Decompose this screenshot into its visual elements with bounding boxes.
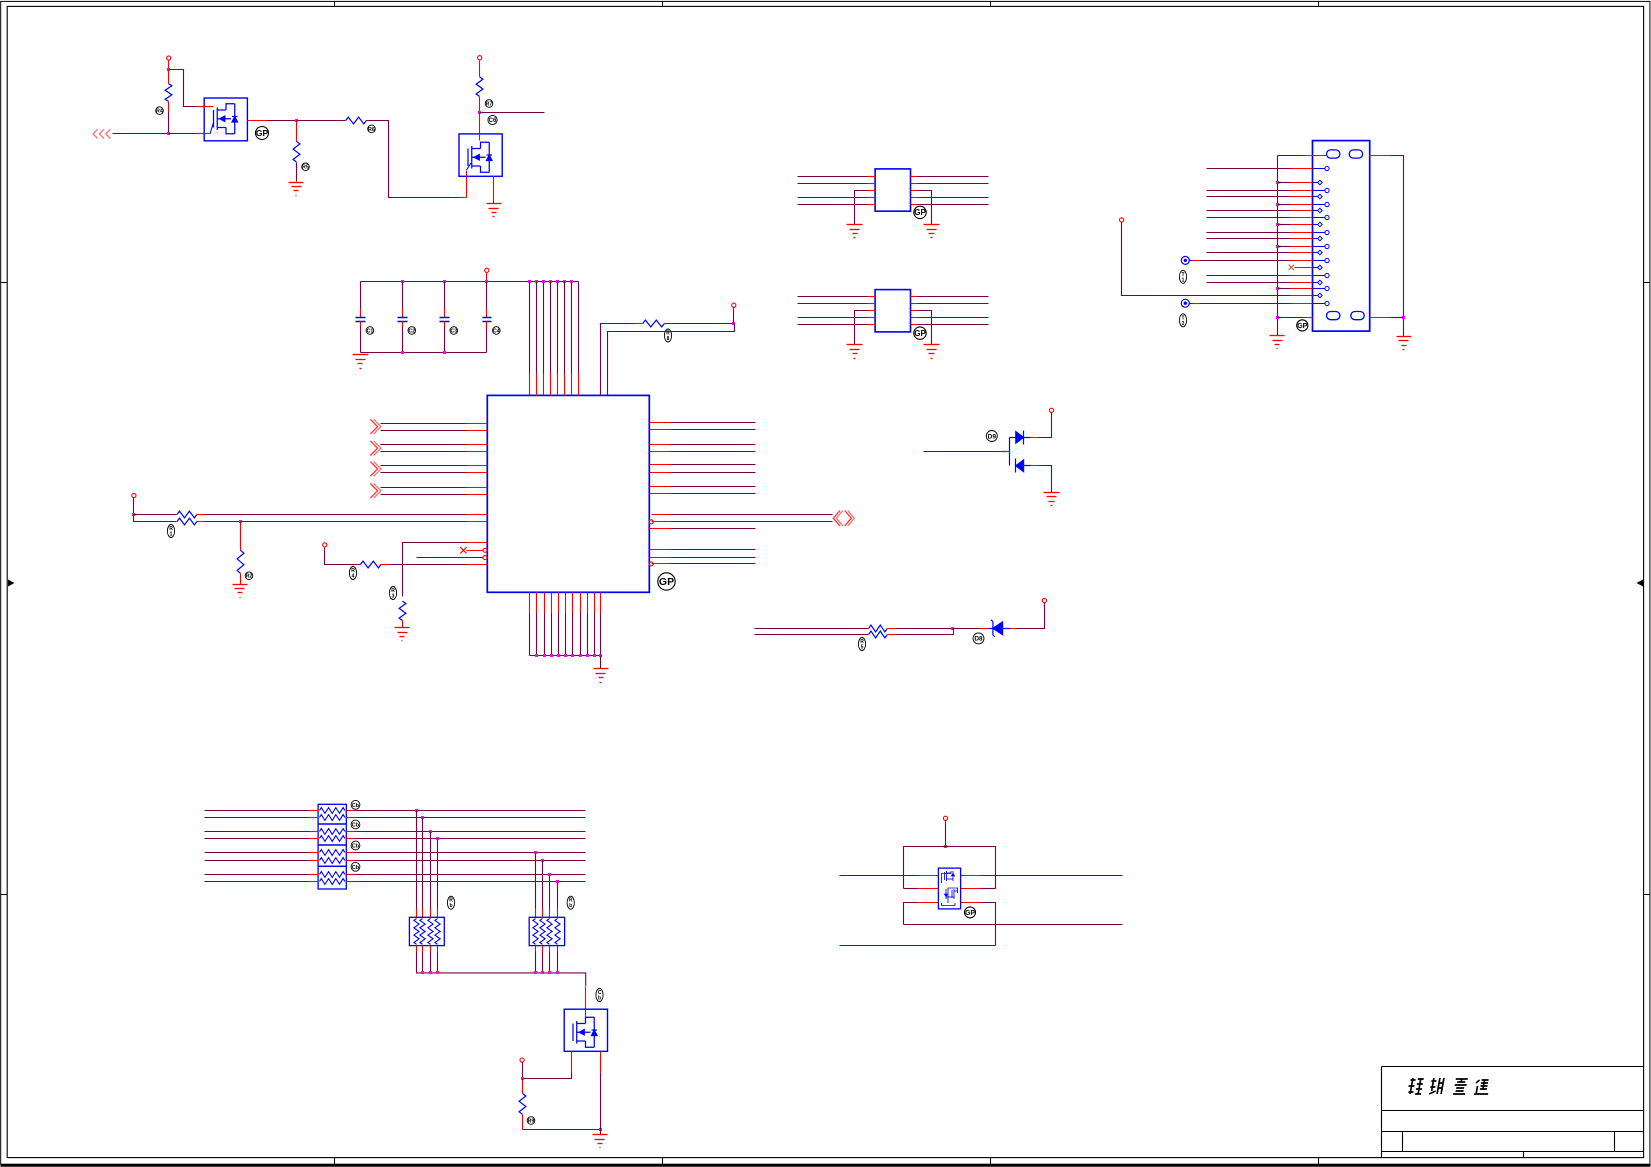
svg-text:5: 5 xyxy=(861,645,864,651)
resistor element RP3a xyxy=(320,850,345,856)
wire xyxy=(665,323,734,325)
signal wire xyxy=(1207,196,1291,198)
wire xyxy=(557,882,559,909)
inverted pin bubble xyxy=(649,562,653,566)
pin wire xyxy=(918,875,939,877)
node junction xyxy=(1276,223,1279,226)
resistor pack RP6 body xyxy=(529,917,564,945)
power terminal P1 xyxy=(167,56,171,60)
resistor R2 xyxy=(293,141,300,162)
wire xyxy=(904,888,918,890)
wire xyxy=(168,61,170,70)
pin wire xyxy=(422,909,424,918)
value label R5 xyxy=(664,329,671,342)
ground xyxy=(1397,337,1412,350)
wire xyxy=(798,183,868,185)
pin wire xyxy=(650,444,671,446)
wire xyxy=(798,197,868,199)
off-page connector chevrons xyxy=(370,419,381,434)
wire stub xyxy=(1190,260,1193,262)
pin wire xyxy=(347,860,355,862)
signal wire xyxy=(355,838,586,840)
pin wire xyxy=(248,120,268,122)
wire xyxy=(381,423,467,425)
wire xyxy=(133,498,135,516)
wire xyxy=(268,120,297,122)
ground xyxy=(1270,336,1285,349)
resistor element RP1a xyxy=(320,808,345,814)
pin wire xyxy=(868,176,876,178)
node junction xyxy=(541,859,544,862)
connector CN1 body xyxy=(1313,141,1370,332)
svg-text:1: 1 xyxy=(170,532,173,538)
pin wire xyxy=(572,593,574,614)
pin wire xyxy=(911,324,918,326)
signal wire xyxy=(205,852,310,854)
pin wire xyxy=(310,831,319,833)
node junction xyxy=(429,971,432,974)
node junction xyxy=(548,971,551,974)
resistor R4 xyxy=(476,77,483,97)
wire xyxy=(671,514,833,516)
value label C2 xyxy=(408,327,416,335)
wire xyxy=(523,1073,572,1079)
pin wire xyxy=(1291,217,1313,219)
resistor R13 xyxy=(519,1093,526,1114)
wire xyxy=(1278,182,1291,184)
ground xyxy=(924,345,940,359)
resistor element RP5 xyxy=(414,919,419,945)
wire xyxy=(1278,155,1305,157)
title block company logotype (CJK calligraphy strokes) xyxy=(1407,1078,1491,1094)
node junction xyxy=(1276,245,1279,248)
wire xyxy=(1039,413,1052,438)
pin wire xyxy=(1370,155,1390,157)
wire xyxy=(1201,303,1291,305)
node junction xyxy=(485,280,488,283)
wire stub xyxy=(1190,303,1193,305)
svg-text:D8: D8 xyxy=(974,636,983,643)
pin wire xyxy=(1291,204,1313,206)
wire xyxy=(1122,223,1291,296)
pin wire xyxy=(911,310,918,312)
pin wire xyxy=(557,946,559,952)
pin wire xyxy=(467,564,488,566)
svg-text:8: 8 xyxy=(667,336,670,342)
pin wire xyxy=(467,514,488,516)
pin wire xyxy=(422,946,424,952)
svg-text:Cb: Cb xyxy=(352,844,360,850)
wire xyxy=(535,952,537,973)
label RP3 xyxy=(351,841,360,850)
node junction xyxy=(1276,316,1279,319)
wire xyxy=(403,543,467,597)
wire xyxy=(798,296,868,298)
ground xyxy=(593,1135,608,1148)
label GP for U1 xyxy=(658,573,675,590)
wire xyxy=(671,444,756,446)
transistor Q2 symbol xyxy=(467,134,493,177)
off-page connector chevrons xyxy=(370,441,381,456)
value label R4 xyxy=(485,100,493,108)
wire xyxy=(918,317,989,319)
wire xyxy=(1278,288,1291,290)
transistor Q4 body xyxy=(938,868,960,909)
ground bus wire xyxy=(416,973,586,986)
power terminal P8 xyxy=(1049,408,1053,412)
svg-text:C4: C4 xyxy=(493,328,500,334)
resistor R3 xyxy=(346,117,367,124)
supply wire into U1 xyxy=(564,282,566,374)
pin wire xyxy=(1295,267,1313,269)
pin wire xyxy=(347,810,355,812)
wire xyxy=(600,656,602,669)
svg-text:Cb: Cb xyxy=(352,803,360,809)
wire xyxy=(549,875,551,909)
wire xyxy=(486,282,488,309)
wire xyxy=(493,202,495,204)
node junction xyxy=(944,845,947,848)
wire xyxy=(798,303,868,305)
power terminal P9 xyxy=(1042,598,1046,602)
svg-text:4: 4 xyxy=(352,574,355,580)
label RP1 xyxy=(351,800,360,809)
wire xyxy=(585,987,587,1010)
node junction xyxy=(556,880,559,883)
svg-text:2: 2 xyxy=(1182,321,1185,327)
svg-text:C3: C3 xyxy=(450,328,457,334)
svg-text:GP: GP xyxy=(914,329,926,338)
value label R6 R7 xyxy=(167,525,174,538)
wire xyxy=(918,191,932,225)
wire xyxy=(113,133,169,135)
IC U2 body xyxy=(875,169,910,211)
pin wire xyxy=(1291,210,1313,212)
pin wire xyxy=(549,946,551,952)
node junction xyxy=(534,971,537,974)
pin wire xyxy=(467,487,488,489)
transistor Q3 body xyxy=(564,1009,607,1051)
resistor pack RP1-RP4 bodies xyxy=(318,804,346,889)
signal wire xyxy=(1207,252,1291,254)
wire xyxy=(798,324,868,326)
pin wire xyxy=(868,296,876,298)
ground xyxy=(395,628,410,641)
pin wire xyxy=(650,464,671,466)
wire xyxy=(444,327,446,353)
pin wire xyxy=(542,946,544,952)
signal wire xyxy=(205,817,310,819)
signal wire xyxy=(840,945,996,947)
pin wire xyxy=(347,838,355,840)
wire xyxy=(198,133,205,135)
node junction xyxy=(534,851,537,854)
pin wire xyxy=(467,423,488,425)
ground bus wire xyxy=(361,352,487,354)
pin wire xyxy=(549,909,551,918)
wire xyxy=(486,322,488,327)
wire xyxy=(918,183,989,185)
node junction xyxy=(599,654,602,657)
wire xyxy=(1278,224,1291,226)
wire xyxy=(360,322,362,327)
wire xyxy=(580,614,582,656)
wire xyxy=(550,374,552,396)
power bus wire xyxy=(361,281,579,283)
label GP for Q1 xyxy=(256,127,269,140)
wire xyxy=(402,322,404,327)
wire xyxy=(918,197,989,199)
wire xyxy=(402,309,404,318)
resistor pack RP5 body xyxy=(409,917,444,945)
pin wire xyxy=(911,190,918,192)
wire xyxy=(542,952,544,973)
pin wire xyxy=(650,451,671,453)
node junction xyxy=(593,654,596,657)
pin wire xyxy=(600,593,602,614)
signal wire xyxy=(1207,282,1291,284)
wire xyxy=(522,1115,524,1130)
pin wire xyxy=(918,902,939,904)
resistor R5 xyxy=(643,320,665,327)
svg-text:R7: R7 xyxy=(486,101,493,107)
node junction xyxy=(542,280,545,283)
ground xyxy=(289,183,304,196)
off-page connector chevrons xyxy=(370,462,381,477)
ground bus wire xyxy=(1277,156,1279,336)
wire xyxy=(197,514,205,516)
wire xyxy=(945,821,947,847)
node junction xyxy=(443,280,446,283)
pin wire xyxy=(347,831,355,833)
wire xyxy=(479,97,481,113)
value label D2 xyxy=(973,633,984,644)
wire xyxy=(402,282,404,309)
wire xyxy=(134,515,177,522)
wire xyxy=(671,464,756,466)
svg-text:b: b xyxy=(449,903,452,909)
wire xyxy=(241,521,467,523)
wire xyxy=(422,818,424,909)
supply wire into U1 xyxy=(529,282,531,374)
pin wire xyxy=(467,542,488,544)
wire xyxy=(402,621,404,628)
wire xyxy=(1031,465,1039,467)
diode pair D1 xyxy=(1002,431,1031,473)
wire xyxy=(558,614,560,656)
signal wire xyxy=(1207,168,1291,170)
wire xyxy=(671,563,756,565)
node junction xyxy=(429,830,432,833)
wire xyxy=(444,309,446,318)
signal wire xyxy=(981,875,1123,877)
wire xyxy=(325,548,361,565)
signal wire xyxy=(205,860,310,862)
wire xyxy=(381,564,389,566)
pin wire xyxy=(565,593,567,614)
pin wire xyxy=(911,303,918,305)
wire xyxy=(600,1130,602,1135)
label GP for Q4 xyxy=(965,907,976,918)
ground xyxy=(594,669,609,683)
pin wire xyxy=(1291,246,1313,248)
signal wire xyxy=(205,810,310,812)
wire xyxy=(637,323,643,325)
pin wire xyxy=(467,451,488,453)
wire xyxy=(601,324,637,396)
svg-text:b: b xyxy=(569,903,572,909)
wire xyxy=(437,952,439,973)
svg-text:C2: C2 xyxy=(408,328,415,334)
wire xyxy=(381,487,467,489)
node junction xyxy=(535,280,538,283)
pin wire xyxy=(347,817,355,819)
pin wire xyxy=(594,593,596,614)
resistor R8 xyxy=(237,550,244,573)
wire xyxy=(549,952,551,973)
wire xyxy=(1039,466,1052,493)
pin wire xyxy=(557,909,559,918)
wire xyxy=(240,574,242,585)
pin wire xyxy=(961,888,981,890)
svg-text:R9: R9 xyxy=(528,1118,535,1124)
signal wire xyxy=(205,831,310,833)
wire xyxy=(529,614,531,656)
wire xyxy=(198,106,205,108)
pin wire xyxy=(430,909,432,918)
pin wire xyxy=(437,909,439,918)
IC U1 body xyxy=(487,395,649,592)
resistor element RP3b xyxy=(320,858,345,864)
wire xyxy=(888,628,897,630)
transistor Q4 symbols xyxy=(942,871,958,906)
wire xyxy=(578,374,580,396)
pin wire xyxy=(467,521,488,523)
ground xyxy=(847,345,863,359)
pin wire xyxy=(347,874,355,876)
pin wire xyxy=(535,946,537,952)
pin wire xyxy=(650,528,671,530)
signal wire xyxy=(1207,210,1291,212)
wire xyxy=(1193,260,1201,262)
svg-text:D9: D9 xyxy=(988,433,997,440)
value label D1 xyxy=(986,431,997,442)
svg-text:GP: GP xyxy=(914,208,926,217)
signal wire xyxy=(755,634,869,636)
pin wire xyxy=(911,183,918,185)
pin wire xyxy=(961,875,981,877)
pin wire xyxy=(310,810,319,812)
wire xyxy=(479,113,481,134)
capacitor C4 xyxy=(483,318,492,322)
pin wire xyxy=(650,557,671,559)
no-connect X mark xyxy=(1289,265,1294,270)
pin wire xyxy=(1002,451,1010,453)
pin wire xyxy=(600,1052,602,1074)
pin wire xyxy=(868,204,876,206)
resistor element RP2a xyxy=(320,829,345,835)
resistor element RP5 xyxy=(435,919,440,945)
wire xyxy=(486,309,488,318)
svg-text:R2: R2 xyxy=(246,574,253,580)
signal wire xyxy=(840,875,918,877)
resistor element RP6 xyxy=(533,919,538,945)
svg-text:GP: GP xyxy=(256,128,269,138)
svg-text:3: 3 xyxy=(392,594,395,600)
node junction xyxy=(549,280,552,283)
pin wire xyxy=(868,190,876,192)
node junction xyxy=(1276,181,1279,184)
signal wire xyxy=(1207,232,1291,234)
pin wire xyxy=(1291,295,1313,297)
pin wire xyxy=(652,521,671,523)
pin wire xyxy=(551,593,553,614)
wire xyxy=(466,177,468,198)
wire xyxy=(437,839,439,909)
wire xyxy=(671,493,756,495)
wire xyxy=(981,903,996,946)
pin wire xyxy=(1291,238,1313,240)
pin wire xyxy=(911,176,918,178)
wire xyxy=(600,1074,602,1130)
wire xyxy=(459,197,467,199)
wire xyxy=(981,888,996,890)
wire xyxy=(671,429,756,431)
wire xyxy=(523,1129,601,1131)
wire xyxy=(381,494,467,496)
wire xyxy=(1193,303,1201,305)
wire xyxy=(557,374,559,396)
pin wire xyxy=(911,204,918,206)
wire xyxy=(1278,317,1305,319)
svg-text:C6: C6 xyxy=(489,118,497,124)
wire xyxy=(168,102,170,113)
wire xyxy=(536,614,538,656)
signal wire xyxy=(205,838,310,840)
node junction xyxy=(1276,287,1279,290)
wire xyxy=(522,1063,524,1079)
transistor Q1 body xyxy=(204,98,247,141)
pin wire xyxy=(868,324,876,326)
wire xyxy=(551,614,553,656)
pin wire xyxy=(1291,275,1313,277)
resistor element RP6 xyxy=(540,919,545,945)
node junction xyxy=(556,280,559,283)
pin wire xyxy=(1370,317,1390,319)
pin wire xyxy=(467,430,488,432)
label RP2 xyxy=(351,820,360,829)
node junction xyxy=(478,111,481,114)
pin wire xyxy=(911,296,918,298)
wire xyxy=(168,113,170,134)
node junction xyxy=(550,654,553,657)
transistor Q2 body xyxy=(459,134,502,176)
node junction xyxy=(543,654,546,657)
node junction xyxy=(167,68,170,71)
pin wire xyxy=(1291,196,1313,198)
signal wire xyxy=(205,874,310,876)
wire xyxy=(918,296,989,298)
pin wire xyxy=(580,593,582,614)
pin wire xyxy=(868,317,876,319)
pin wire xyxy=(1291,303,1313,305)
ground xyxy=(353,355,369,369)
pin wire xyxy=(961,902,981,904)
wire xyxy=(444,322,446,327)
wire xyxy=(535,853,537,909)
wire xyxy=(360,327,362,353)
supply loop wire xyxy=(904,847,996,889)
